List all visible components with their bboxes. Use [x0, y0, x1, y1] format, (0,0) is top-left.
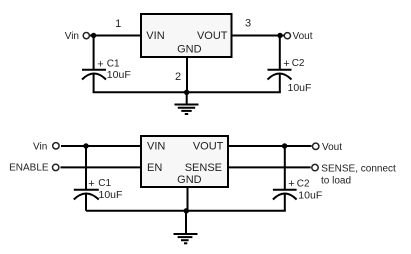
- svg-text:GND: GND: [177, 44, 202, 56]
- svg-text:VOUT: VOUT: [193, 140, 224, 152]
- svg-text:C1: C1: [98, 178, 111, 189]
- svg-text:C1: C1: [107, 59, 120, 70]
- svg-text:Vin: Vin: [33, 142, 47, 153]
- svg-text:10uF: 10uF: [107, 69, 131, 81]
- svg-text:2: 2: [175, 71, 181, 83]
- svg-text:10uF: 10uF: [298, 189, 322, 201]
- svg-text:+: +: [97, 58, 103, 70]
- svg-text:ENABLE: ENABLE: [9, 163, 49, 174]
- svg-text:C2: C2: [297, 178, 310, 189]
- svg-text:1: 1: [115, 18, 121, 30]
- svg-text:Vin: Vin: [65, 31, 79, 42]
- svg-text:GND: GND: [177, 174, 202, 186]
- svg-text:to load: to load: [321, 175, 351, 186]
- svg-text:EN: EN: [147, 162, 162, 174]
- svg-text:VIN: VIN: [147, 140, 165, 152]
- svg-text:10uF: 10uF: [99, 189, 123, 201]
- svg-text:10uF: 10uF: [288, 82, 312, 94]
- svg-text:Vout: Vout: [322, 142, 342, 153]
- svg-text:Vout: Vout: [293, 31, 313, 42]
- svg-text:SENSE: SENSE: [185, 162, 222, 174]
- svg-text:VIN: VIN: [146, 30, 164, 42]
- svg-text:VOUT: VOUT: [197, 30, 228, 42]
- svg-text:+: +: [88, 178, 94, 190]
- svg-text:+: +: [288, 178, 294, 190]
- svg-text:SENSE, connect: SENSE, connect: [321, 163, 396, 174]
- svg-text:3: 3: [245, 18, 251, 30]
- svg-text:+: +: [283, 58, 289, 70]
- svg-text:C2: C2: [292, 58, 305, 69]
